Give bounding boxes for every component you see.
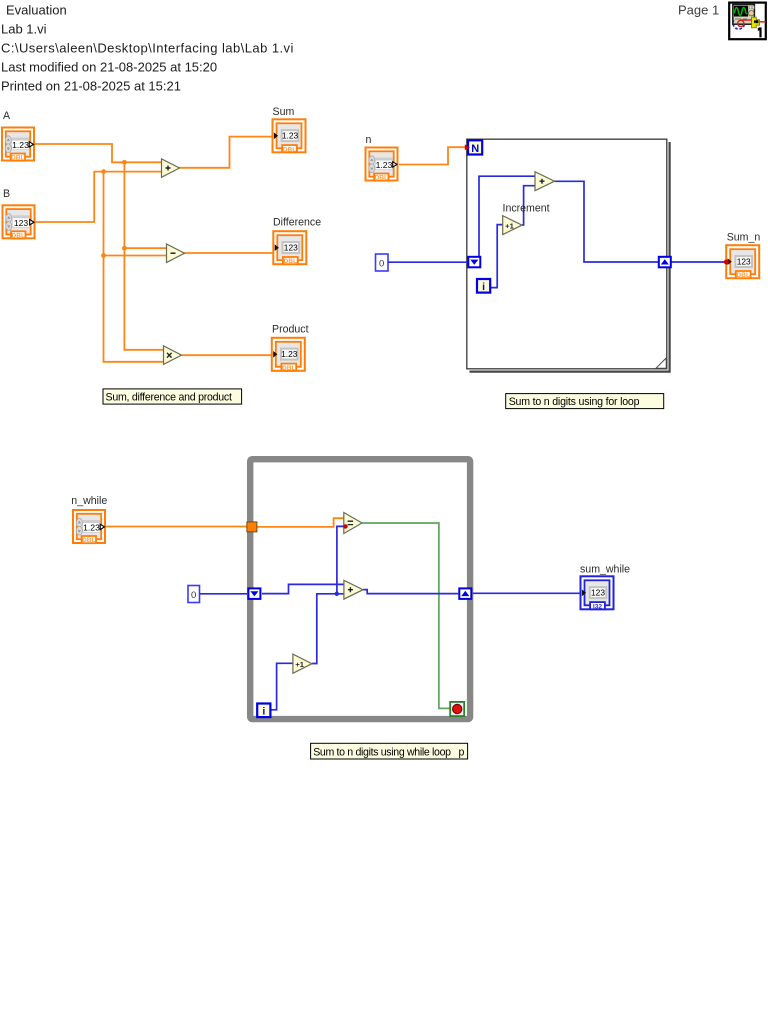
svg-text:sum_while: sum_while [580, 563, 630, 575]
svg-text:+1: +1 [295, 660, 304, 669]
svg-text:Product: Product [272, 324, 309, 336]
svg-text:n_while: n_while [71, 495, 107, 507]
svg-text:Last modified on 21-08-2025 at: Last modified on 21-08-2025 at 15:20 [1, 60, 217, 75]
svg-text:n: n [366, 134, 372, 146]
svg-text:+1: +1 [505, 221, 514, 230]
svg-text:123: 123 [284, 242, 298, 252]
svg-text:0: 0 [191, 590, 196, 601]
svg-text:Sum, difference and product: Sum, difference and product [106, 392, 232, 404]
svg-text:p: p [459, 746, 465, 758]
svg-text:123: 123 [14, 218, 29, 228]
svg-text:Sum to n digits using for loop: Sum to n digits using for loop [509, 396, 640, 408]
svg-text:Lab 1.vi: Lab 1.vi [1, 22, 47, 37]
svg-text:Page 1: Page 1 [678, 3, 719, 18]
svg-text:123: 123 [737, 256, 751, 266]
svg-text:C:\Users\aleen\Desktop\Interfa: C:\Users\aleen\Desktop\Interfacing lab\L… [1, 41, 294, 56]
svg-text:Sum_n: Sum_n [727, 232, 761, 244]
svg-text:Printed on 21-08-2025 at 15:21: Printed on 21-08-2025 at 15:21 [1, 79, 181, 94]
svg-text:i: i [262, 706, 265, 718]
svg-text:Increment: Increment [503, 203, 550, 215]
svg-text:Difference: Difference [273, 216, 321, 228]
svg-text:1.23: 1.23 [12, 140, 29, 150]
svg-text:1.23: 1.23 [282, 131, 299, 141]
svg-text:N: N [471, 143, 479, 155]
svg-text:1.23: 1.23 [281, 349, 298, 359]
svg-text:Sum to n digits using while lo: Sum to n digits using while loop [313, 746, 451, 758]
svg-text:B: B [3, 188, 10, 200]
svg-text:0: 0 [379, 259, 384, 270]
svg-text:Sum: Sum [273, 106, 295, 118]
svg-text:1.23: 1.23 [83, 523, 100, 533]
svg-text:123: 123 [591, 587, 605, 597]
svg-text:1.23: 1.23 [376, 160, 393, 170]
svg-text:Evaluation: Evaluation [6, 3, 67, 18]
svg-text:A: A [3, 110, 11, 122]
svg-text:i: i [482, 281, 485, 293]
